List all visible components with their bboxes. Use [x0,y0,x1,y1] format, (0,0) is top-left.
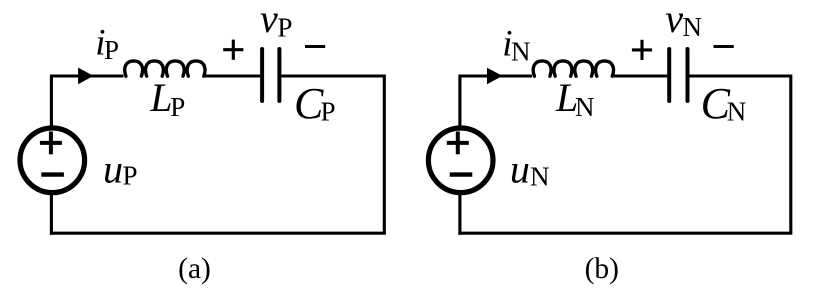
wire bottom [458,232,792,235]
svg-text:P: P [104,35,119,65]
svg-text:v: v [260,0,278,41]
capacitor CP plates [262,49,279,101]
wire top-left corner segment [51,76,123,126]
svg-text:P: P [170,92,185,122]
svg-text:P: P [277,13,292,43]
svg-text:N: N [683,12,703,42]
plus polarity mark for vP [223,40,243,60]
voltage source uP circle [20,128,85,193]
svg-text:(b): (b) [585,253,619,285]
plus symbol inside source uP [40,132,62,155]
capacitor CN plates [669,49,687,101]
svg-text:u: u [103,146,123,191]
plus polarity mark for vN [632,40,652,60]
inductor LP [125,61,205,76]
wire between inductor LP and capacitor CP [205,74,260,77]
svg-text:L: L [149,75,172,120]
minus polarity mark for vN [714,45,734,48]
circuit (b) [458,76,792,235]
wire top-left corner segment [460,76,532,126]
circuit (a) [50,76,386,235]
svg-text:C: C [294,79,324,128]
svg-text:(a): (a) [178,253,211,285]
voltage source uN circle [428,128,493,193]
wire between inductor LN and capacitor CN [614,74,668,77]
plus symbol inside source uN [447,132,469,155]
minus symbol inside source uP [41,172,64,176]
svg-text:N: N [727,97,747,127]
current arrow iP [78,68,93,85]
minus polarity mark for vP [305,45,325,48]
svg-text:u: u [510,146,530,191]
svg-text:v: v [665,0,683,41]
wire bottom [50,232,386,235]
current arrow iN [487,68,502,85]
svg-text:N: N [575,92,595,122]
svg-text:N: N [511,37,531,67]
inductor LN [533,61,613,76]
svg-text:P: P [123,161,138,191]
wire source uN bottom lead [458,195,461,235]
minus symbol inside source uN [450,172,473,176]
svg-text:N: N [530,162,550,192]
wire from capacitor CP to right corner, right vertical [281,76,384,233]
svg-text:P: P [321,97,336,127]
wire source uP bottom lead [50,195,53,235]
wire from capacitor CN to right corner, right vertical [689,76,790,233]
